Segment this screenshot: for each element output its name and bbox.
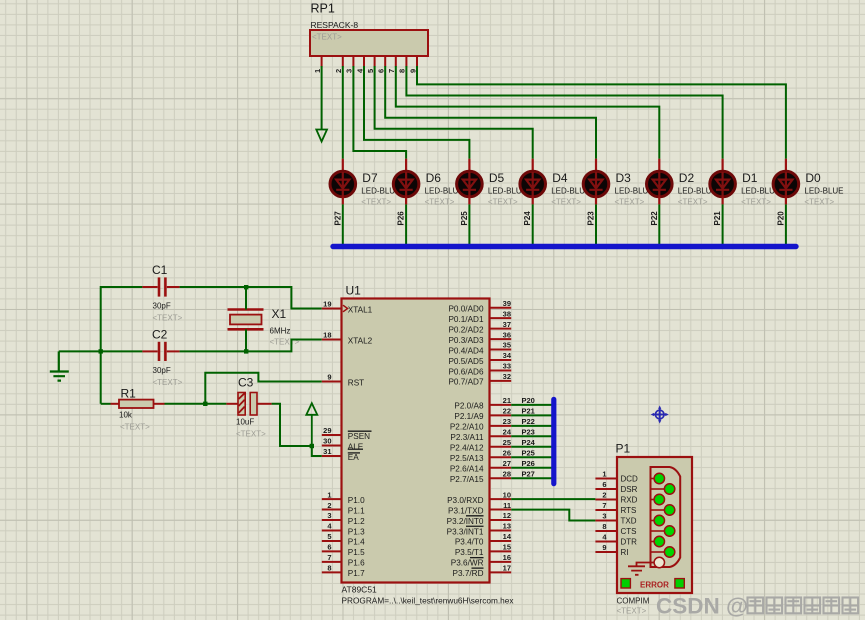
svg-text:D1: D1 (742, 171, 758, 185)
junction C2/left rail (99, 349, 103, 353)
wire C2 row right to XTAL2 (180, 340, 322, 352)
svg-text:P0.6/AD6: P0.6/AD6 (448, 367, 483, 376)
svg-text:30: 30 (323, 437, 331, 446)
LED D2 body (647, 171, 673, 197)
svg-text:14: 14 (503, 532, 512, 541)
svg-text:P26: P26 (522, 459, 535, 468)
U1 pin 18 (XTAL2) stub (322, 339, 342, 341)
svg-text:P25: P25 (460, 211, 469, 226)
wire LED D7 to bus (342, 204, 344, 246)
svg-text:9: 9 (327, 373, 331, 382)
svg-text:P2.3/A11: P2.3/A11 (450, 433, 484, 442)
LED D0 pin stub top (785, 159, 787, 172)
P1 pin 3 (TXD) stub (595, 520, 617, 522)
svg-text:P3.0/RXD: P3.0/RXD (447, 496, 483, 505)
svg-text:26: 26 (503, 448, 511, 457)
P1 connector lead row 1 (right) (651, 509, 666, 511)
svg-text:P0.3/AD3: P0.3/AD3 (448, 336, 483, 345)
P1 connector lead row 3 (right) (651, 551, 666, 553)
wire P3.1/TXD to P1 TXD (511, 510, 595, 521)
watermark glyph block 4 (824, 598, 840, 614)
P1 connector pin circle (right 2) (664, 526, 674, 536)
svg-text:P1.4: P1.4 (348, 538, 365, 547)
svg-text:P3.5/T1: P3.5/T1 (455, 548, 484, 557)
U1 pin 17 (P3.7/RD) stub (490, 571, 512, 573)
svg-text:10uF: 10uF (236, 418, 254, 427)
wire X1 bottom to C2 row (245, 329, 247, 351)
svg-text:P2.0/A8: P2.0/A8 (454, 402, 484, 411)
svg-text:11: 11 (503, 501, 511, 510)
LED D2 pin stub top (658, 159, 660, 172)
junction power arrow/EA (310, 444, 314, 448)
svg-text:P0.5/AD5: P0.5/AD5 (448, 357, 483, 366)
svg-text:18: 18 (323, 331, 331, 340)
svg-text:1: 1 (602, 470, 606, 479)
LED D3 diode symbol (589, 172, 602, 197)
svg-text:7: 7 (602, 501, 606, 510)
U1 pin 24 (P2.3/A11) stub (490, 435, 512, 437)
wire LED D0 to bus (785, 204, 787, 246)
U1 pin 14 (P3.4/T0) stub (490, 540, 512, 542)
ground symbol (left) (50, 351, 69, 380)
LED D1 pin stub top (721, 159, 723, 172)
wire C2 row left (59, 350, 143, 352)
P1 pin 2 (RXD) stub (595, 499, 617, 501)
wire left rail (C1 to R1) (100, 286, 102, 404)
U1 body (AT89C51) (342, 299, 490, 583)
LED D6 pin stub bottom (405, 197, 407, 205)
svg-text:<TEXT>: <TEXT> (615, 198, 645, 207)
U1 pin 32 (P0.7/AD7) stub (490, 380, 512, 382)
svg-text:DSR: DSR (621, 485, 638, 494)
resistor R1 (101, 403, 111, 405)
U1 pin 8 (P1.7) stub (322, 571, 342, 573)
capacitor C3 (electrolytic) (226, 403, 238, 405)
svg-text:2: 2 (327, 501, 331, 510)
wire R1 to C3 (165, 403, 227, 405)
U1 pin 13 (P3.3/INT1) stub (490, 529, 512, 531)
U1 pin 37 (P0.2/AD2) stub (490, 328, 512, 330)
U1 pin 11 (P3.1/TXD) stub (490, 509, 512, 511)
svg-text:19: 19 (323, 300, 331, 309)
svg-text:36: 36 (503, 330, 511, 339)
LED D7 pin stub top (342, 159, 344, 172)
U1 pin 4 (P1.3) stub (322, 529, 342, 531)
svg-text:D5: D5 (489, 171, 505, 185)
wire RP1 pin 7 to LED D2 (396, 66, 660, 159)
P1 connector pin circle (right 3) (664, 547, 674, 557)
WR overline (470, 557, 484, 559)
LED D4 body (520, 171, 546, 197)
P1 shield pin circle (white) (654, 557, 664, 567)
svg-text:D6: D6 (426, 171, 442, 185)
P1 error indicator square (left) (621, 579, 630, 588)
svg-text:7: 7 (387, 69, 396, 73)
P1 connector pin circle (left 1) (654, 494, 664, 504)
RP1 pin 9 stub (416, 56, 418, 67)
svg-text:P20: P20 (522, 396, 535, 405)
P1 pin 1 (DCD) stub (595, 478, 617, 480)
svg-text:CTS: CTS (621, 527, 637, 536)
U1 pin 1 (P1.0) stub (322, 498, 342, 500)
svg-text:P3.7/RD: P3.7/RD (453, 569, 484, 578)
LED D5 pin stub bottom (468, 197, 470, 205)
P3.2/INT0 overline (466, 515, 484, 517)
svg-text:25: 25 (503, 438, 511, 447)
svg-text:D0: D0 (805, 171, 821, 185)
wire P3.0/RXD to P1 RXD (511, 498, 595, 500)
wire P2.0 to bus (511, 404, 552, 406)
svg-text:<TEXT>: <TEXT> (425, 198, 455, 207)
svg-text:R1: R1 (121, 387, 137, 401)
svg-text:D3: D3 (616, 171, 632, 185)
vertical bus (P2) (551, 399, 556, 483)
svg-text:AT89C51: AT89C51 (342, 585, 378, 595)
RD overline (472, 567, 484, 569)
U1 pin 12 (P3.2/INT0) stub (490, 519, 512, 521)
svg-text:P25: P25 (522, 448, 535, 457)
capacitor C2 (142, 350, 157, 352)
svg-text:P0.0/AD0: P0.0/AD0 (448, 305, 483, 314)
svg-text:P23: P23 (522, 428, 535, 437)
wire X1 top to C1 row (245, 287, 247, 310)
wire RP1 pin 6 to LED D3 (385, 66, 596, 159)
svg-text:<TEXT>: <TEXT> (153, 378, 183, 387)
svg-text:D7: D7 (362, 171, 378, 185)
svg-text:34: 34 (503, 351, 512, 360)
LED D7 diode symbol (336, 172, 349, 197)
svg-text:<TEXT>: <TEXT> (741, 198, 771, 207)
ground arrow (RP1 pin 1) (316, 130, 327, 142)
svg-text:6: 6 (602, 480, 606, 489)
ALE underline (348, 448, 363, 450)
U1 XTAL1 clock marker (343, 305, 348, 312)
LED D5 body (457, 171, 483, 197)
svg-text:P21: P21 (522, 407, 535, 416)
RP1 pin 1 stub (321, 56, 323, 67)
svg-text:PROGRAM=..\..\keil_test\renwu6: PROGRAM=..\..\keil_test\renwu6H\sercom.h… (342, 596, 514, 605)
svg-text:27: 27 (503, 459, 511, 468)
svg-text:2: 2 (602, 491, 606, 500)
wire RP1 pin 5 to LED D4 (375, 66, 533, 159)
svg-text:P2.7/A15: P2.7/A15 (450, 475, 484, 484)
P1 pin 6 (DSR) stub (595, 488, 617, 490)
P1 connector pin circle (left 0) (654, 473, 664, 483)
svg-text:P1: P1 (616, 442, 631, 456)
svg-text:12: 12 (503, 511, 511, 520)
wire RP1 pin 2 to LED D7 (342, 66, 344, 159)
svg-text:RP1: RP1 (311, 2, 335, 16)
svg-text:P22: P22 (650, 211, 659, 226)
wire LED D6 to bus (405, 204, 407, 246)
svg-text:32: 32 (503, 372, 511, 381)
LED D7 body (330, 171, 356, 197)
svg-text:21: 21 (503, 396, 511, 405)
U1 pin 34 (P0.5/AD5) stub (490, 359, 512, 361)
svg-text:ALE: ALE (348, 442, 364, 451)
svg-text:P3.4/T0: P3.4/T0 (455, 538, 484, 547)
svg-text:<TEXT>: <TEXT> (312, 33, 342, 42)
svg-text:8: 8 (398, 69, 407, 73)
svg-text:RST: RST (348, 378, 364, 387)
svg-text:5: 5 (366, 69, 375, 73)
svg-text:3: 3 (327, 511, 331, 520)
U1 pin 30 (ALE) stub (322, 445, 342, 447)
P1 internal ground symbol (628, 563, 654, 575)
U1 pin 31 (EA) stub (322, 455, 342, 457)
U1 pin 9 (RST) stub (322, 381, 342, 383)
svg-text:P27: P27 (333, 211, 342, 226)
wire P2.7 to bus (511, 477, 552, 479)
wire RP1 pin 9 to LED D0 (417, 66, 786, 159)
U1 pin 3 (P1.2) stub (322, 519, 342, 521)
svg-text:P1.0: P1.0 (348, 496, 365, 505)
wire C1 row right to XTAL1 (180, 287, 322, 309)
svg-text:XTAL1: XTAL1 (348, 305, 373, 314)
P1 connector pin circle (right 1) (664, 505, 674, 515)
svg-text:P2.4/A12: P2.4/A12 (450, 444, 484, 453)
svg-text:<TEXT>: <TEXT> (120, 423, 150, 432)
RP1 pin 3 stub (352, 56, 354, 67)
svg-text:P0.1/AD1: P0.1/AD1 (448, 315, 483, 324)
svg-text:1: 1 (313, 69, 322, 73)
U1 pin 38 (P0.1/AD1) stub (490, 317, 512, 319)
watermark glyph block 1 (767, 598, 783, 614)
LED D1 diode symbol (716, 172, 729, 197)
svg-text:8: 8 (327, 564, 331, 573)
P1 connector pin circle (left 3) (654, 536, 664, 546)
wire RP1 pin 4 to LED D5 (364, 66, 469, 159)
svg-text:P1.1: P1.1 (348, 506, 365, 515)
svg-text:39: 39 (503, 299, 511, 308)
U1 pin 5 (P1.4) stub (322, 540, 342, 542)
svg-text:U1: U1 (346, 284, 362, 298)
svg-text:RI: RI (621, 548, 629, 557)
capacitor C1 (142, 286, 157, 288)
svg-text:P27: P27 (522, 469, 535, 478)
svg-text:29: 29 (323, 426, 331, 435)
P1 pin 4 (DTR) stub (595, 541, 617, 543)
watermark glyph block 5 (843, 598, 859, 614)
U1 pin 7 (P1.6) stub (322, 561, 342, 563)
svg-text:P2.5/A13: P2.5/A13 (450, 454, 484, 463)
LED D6 pin stub top (405, 159, 407, 172)
P1 connector lead row 0 (left) (651, 478, 656, 480)
svg-text:P2.1/A9: P2.1/A9 (454, 412, 484, 421)
svg-text:8: 8 (602, 522, 606, 531)
svg-text:3: 3 (602, 512, 606, 521)
wire P2.6 to bus (511, 467, 552, 469)
U1 pin 19 (XTAL1) stub (322, 308, 342, 310)
U1 pin 27 (P2.6/A14) stub (490, 467, 512, 469)
wire LED D5 to bus (468, 204, 470, 246)
svg-text:30pF: 30pF (153, 302, 171, 311)
svg-text:COMPIM: COMPIM (617, 597, 650, 606)
watermark glyph block 3 (805, 598, 821, 614)
U1 pin 25 (P2.4/A12) stub (490, 446, 512, 448)
wire P2.5 to bus (511, 456, 552, 458)
P1 connector lead row 1 (left) (651, 499, 656, 501)
svg-text:P1.5: P1.5 (348, 548, 365, 557)
svg-text:PSEN: PSEN (348, 432, 370, 441)
svg-text:6: 6 (377, 69, 386, 73)
wire C1 row left (101, 286, 143, 288)
svg-text:1: 1 (327, 490, 331, 499)
LED D4 pin stub bottom (532, 197, 534, 205)
LED D5 pin stub top (468, 159, 470, 172)
LED D2 diode symbol (653, 172, 666, 197)
svg-text:16: 16 (503, 553, 511, 562)
wire RP1 pin 8 to LED D1 (406, 66, 722, 159)
svg-text:<TEXT>: <TEXT> (617, 607, 647, 616)
LED D1 pin stub bottom (721, 197, 723, 205)
wire RP1 pin 3 to LED D6 (353, 66, 406, 159)
P1 connector lead row 2 (right) (651, 530, 666, 532)
svg-text:28: 28 (503, 469, 511, 478)
svg-text:<TEXT>: <TEXT> (153, 314, 183, 323)
U1 pin 36 (P0.3/AD3) stub (490, 338, 512, 340)
U1 pin 15 (P3.5/T1) stub (490, 550, 512, 552)
svg-text:22: 22 (503, 407, 511, 416)
P1 connector pin circle (left 2) (654, 515, 664, 525)
svg-text:EA: EA (348, 453, 359, 462)
LED D6 diode symbol (400, 172, 413, 197)
RP1 pin 6 stub (384, 56, 386, 67)
svg-text:38: 38 (503, 309, 511, 318)
svg-text:5: 5 (327, 532, 331, 541)
P1 pin 9 (RI) stub (595, 551, 617, 553)
wire C3 to EA (272, 404, 322, 456)
svg-text:XTAL2: XTAL2 (348, 336, 373, 345)
svg-text:P0.7/AD7: P0.7/AD7 (448, 378, 483, 387)
LED D4 diode symbol (526, 172, 539, 197)
P1 connector lead row 0 (right) (651, 488, 666, 490)
wire LED D2 to bus (658, 204, 660, 246)
svg-text:P1.7: P1.7 (348, 569, 365, 578)
watermark glyph block 0 (748, 598, 764, 614)
svg-text:6MHz: 6MHz (270, 327, 291, 336)
LED D2 pin stub bottom (658, 197, 660, 205)
svg-text:P26: P26 (397, 211, 406, 226)
svg-text:RTS: RTS (621, 506, 637, 515)
svg-text:P1.2: P1.2 (348, 517, 365, 526)
svg-text:<TEXT>: <TEXT> (804, 198, 834, 207)
svg-text:P23: P23 (587, 211, 596, 226)
svg-text:P21: P21 (713, 211, 722, 226)
U1 pin 29 (PSEN) stub (322, 434, 342, 436)
svg-text:C2: C2 (152, 328, 168, 342)
P1 error indicator square (right) (675, 579, 684, 588)
svg-text:10: 10 (503, 490, 511, 499)
U1 pin 33 (P0.6/AD6) stub (490, 369, 512, 371)
svg-text:P24: P24 (523, 211, 532, 226)
wire LED D3 to bus (595, 204, 597, 246)
origin marker (blue cross) (655, 410, 664, 419)
wire RP1 pin 1 to ground arrow (321, 66, 323, 130)
P1 D-sub shell (651, 467, 681, 567)
P1 pin 7 (RTS) stub (595, 509, 617, 511)
P1 pin 8 (CTS) stub (595, 530, 617, 532)
LED D3 pin stub bottom (595, 197, 597, 205)
svg-text:P22: P22 (522, 417, 535, 426)
svg-text:P0.2/AD2: P0.2/AD2 (448, 325, 483, 334)
junction R1/RST (203, 402, 207, 406)
junction C2/X1 bottom (244, 349, 248, 353)
U1 pin 22 (P2.1/A9) stub (490, 414, 512, 416)
svg-text:23: 23 (503, 417, 511, 426)
U1 pin 39 (P0.0/AD0) stub (490, 307, 512, 309)
svg-text:30pF: 30pF (153, 366, 171, 375)
svg-text:TXD: TXD (621, 517, 637, 526)
svg-text:10k: 10k (119, 411, 133, 420)
LED D0 pin stub bottom (785, 197, 787, 205)
LED D7 pin stub bottom (342, 197, 344, 205)
EA overline (348, 452, 360, 454)
RP1 pin 8 stub (405, 56, 407, 67)
U1 pin 6 (P1.5) stub (322, 550, 342, 552)
svg-text:D2: D2 (679, 171, 695, 185)
svg-text:LED-BLUE: LED-BLUE (804, 187, 843, 196)
U1 pin 2 (P1.1) stub (322, 509, 342, 511)
svg-text:P1.3: P1.3 (348, 527, 365, 536)
svg-text:9: 9 (408, 69, 417, 73)
LED D3 pin stub top (595, 159, 597, 172)
svg-text:<TEXT>: <TEXT> (236, 430, 266, 439)
U1 pin 10 (P3.0/RXD) stub (490, 498, 512, 500)
LED D1 body (710, 171, 736, 197)
LED D3 body (583, 171, 609, 197)
PSEN overline (348, 430, 372, 432)
LED bus (blue horizontal) (333, 244, 796, 249)
wire P2.1 to bus (511, 414, 552, 416)
P3.3/INT1 overline (466, 525, 484, 527)
RP1 pin 2 stub (342, 56, 344, 67)
svg-text:6: 6 (327, 543, 331, 552)
svg-text:<TEXT>: <TEXT> (678, 198, 708, 207)
svg-text:13: 13 (503, 522, 511, 531)
svg-text:DTR: DTR (621, 538, 638, 547)
P1 connector pin circle (right 0) (664, 484, 674, 494)
RP1 pin 4 stub (363, 56, 365, 67)
svg-text:RESPACK-8: RESPACK-8 (311, 20, 359, 30)
svg-text:<TEXT>: <TEXT> (551, 198, 581, 207)
svg-text:7: 7 (327, 553, 331, 562)
wire LED D4 to bus (532, 204, 534, 246)
svg-text:2: 2 (334, 69, 343, 73)
svg-text:35: 35 (503, 341, 511, 350)
svg-text:D4: D4 (552, 171, 568, 185)
svg-text:P3.1/TXD: P3.1/TXD (448, 506, 484, 515)
LED D4 pin stub top (532, 159, 534, 172)
svg-text:P20: P20 (776, 211, 785, 226)
svg-text:DCD: DCD (621, 475, 639, 484)
U1 pin 16 (P3.6/WR) stub (490, 561, 512, 563)
wire P2.3 to bus (511, 435, 552, 437)
U1 pin 26 (P2.5/A13) stub (490, 456, 512, 458)
svg-text:ERROR: ERROR (640, 581, 669, 590)
RP1 pin 7 stub (395, 56, 397, 67)
U1 pin 28 (P2.7/A15) stub (490, 477, 512, 479)
svg-text:<TEXT>: <TEXT> (488, 198, 518, 207)
LED D0 body (773, 171, 799, 197)
wire P2.4 to bus (511, 446, 552, 448)
P1 connector lead row 2 (left) (651, 520, 656, 522)
svg-text:37: 37 (503, 320, 511, 329)
wire RST net (205, 373, 321, 404)
svg-text:3: 3 (345, 69, 354, 73)
svg-text:P2.6/A14: P2.6/A14 (450, 465, 484, 474)
svg-text:C1: C1 (152, 263, 168, 277)
